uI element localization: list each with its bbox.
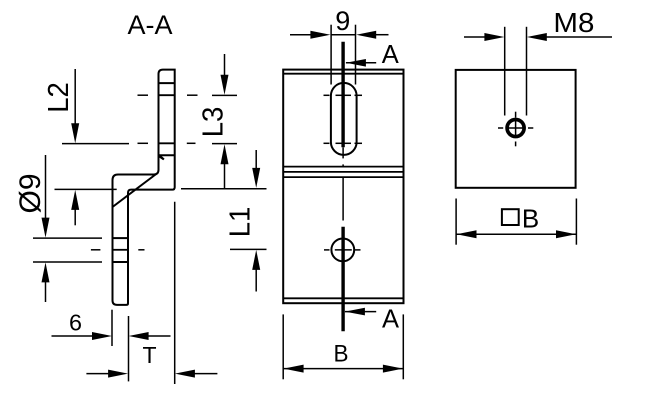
hole centerline crossing (side view leg) <box>113 249 129 251</box>
slot top centerline dashes <box>138 94 149 96</box>
dimension L1 bottom arrowhead <box>252 250 260 270</box>
dimension B extension line right <box>402 314 404 379</box>
dimension T line right <box>194 373 217 375</box>
dimension 9 right arrowhead <box>356 31 376 39</box>
L3 bottom tick line <box>212 143 237 145</box>
hole bottom edge line (side view leg) <box>113 261 129 263</box>
front view bend line 2 <box>283 171 403 173</box>
hole centerline dashes (side view) <box>91 249 101 251</box>
svg-text:A: A <box>382 41 399 69</box>
dimension D9 line upper <box>45 155 47 219</box>
section line A-A upper thick segment <box>341 42 344 148</box>
hole circle (front view) <box>331 239 354 262</box>
front view bend line 1 <box>283 166 403 168</box>
reference line slot bottom center extended left <box>62 143 129 145</box>
dimension 6 left arrowhead <box>92 332 112 340</box>
step bottom extension line right <box>181 188 267 190</box>
dimension T left arrowhead <box>108 370 128 378</box>
dimension D9 line lower <box>45 281 47 302</box>
svg-text:6: 6 <box>69 309 82 335</box>
dimension L2 arrowhead <box>71 123 79 143</box>
dimension L3 bottom arrowhead <box>221 144 229 164</box>
slot top edge line (side view) <box>159 82 175 84</box>
hole bottom extension line <box>33 261 102 263</box>
dimension square-B line <box>457 233 577 235</box>
dimension line below reference with up arrow <box>74 209 76 225</box>
svg-text:A: A <box>382 306 399 334</box>
dimension M8 extension line left <box>504 27 506 116</box>
dimension M8 leader line right <box>546 36 612 38</box>
dimension D9 lower arrowhead <box>42 262 50 282</box>
chamfer tick at slot bottom <box>158 154 164 160</box>
hole top extension line <box>33 237 102 239</box>
front view plate outline <box>283 70 403 304</box>
dimension L3 top arrowhead <box>221 75 229 95</box>
slot bottom centerline dashes <box>138 142 149 144</box>
dimension 6 line left <box>52 335 94 337</box>
dimension L3 line <box>224 54 226 76</box>
dimension D9 upper arrowhead <box>42 218 50 238</box>
dimension 9 left arrowhead <box>310 31 330 39</box>
top view square plate outline <box>456 70 576 188</box>
dimension M8 line left <box>464 36 485 38</box>
dimension 6 right arrowhead <box>129 332 149 340</box>
square symbol <box>502 209 519 225</box>
dimension T right arrowhead <box>175 370 195 378</box>
hole centerline dashes (front view) <box>324 249 330 251</box>
slot bottom arc centerline crossing (side view) <box>159 142 175 144</box>
section hatch diagonal <box>113 174 157 207</box>
dimension B extension line left <box>282 314 284 379</box>
extension line leg left edge <box>111 310 113 346</box>
centerline thin segments <box>342 147 344 158</box>
dimension 9 line right <box>376 34 389 36</box>
dimension 9 extension line right <box>355 25 357 85</box>
dimension 9 middle segment <box>331 34 356 36</box>
front view bottom inner edge line <box>283 297 403 299</box>
cutting plane arrow bottom <box>345 311 376 313</box>
dimension M8 right arrowhead <box>527 33 547 41</box>
dimension L2 line <box>74 69 76 128</box>
L3 top tick line <box>212 94 237 96</box>
threaded hole M8 ring <box>507 120 524 137</box>
section line A-A lower thick segment <box>341 227 344 331</box>
dimension 9 line left <box>290 34 311 36</box>
svg-text:B: B <box>334 340 349 367</box>
dimension 9 extension line left <box>330 25 332 85</box>
dimension 6 line right <box>149 335 171 337</box>
hole crosshair vertical dashes <box>515 112 517 118</box>
dimension square-B extension line right <box>575 199 577 245</box>
cutting plane arrow top <box>346 62 376 64</box>
lower leg top reference line extended left <box>55 188 117 190</box>
front view top inner edge line <box>283 73 403 75</box>
dimension square-B left arrowhead <box>457 230 477 238</box>
dimension T line left <box>86 373 109 375</box>
svg-text:M8: M8 <box>553 7 594 38</box>
dimension L1 line upper <box>255 150 257 169</box>
extension line bar right edge down <box>174 202 176 384</box>
svg-text:9: 9 <box>335 6 350 36</box>
slot outline (front view) <box>331 83 357 155</box>
svg-text:B: B <box>522 203 539 233</box>
slot bottom arc centerline dashes (front view) <box>324 142 330 144</box>
hole crosshair horizontal dashes <box>498 127 503 129</box>
dimension B right arrowhead <box>383 365 403 373</box>
svg-text:L1: L1 <box>223 207 256 238</box>
hole top edge line (side view leg) <box>113 237 129 239</box>
dimension square-B right arrowhead <box>556 230 576 238</box>
dimension L3 line lower <box>224 163 226 189</box>
dimension B left arrowhead <box>284 365 304 373</box>
svg-text:L3: L3 <box>196 107 229 138</box>
dimension square-B extension line left <box>455 199 457 245</box>
dimension L1 line lower <box>255 269 257 292</box>
dimension M8 extension line right <box>526 27 528 116</box>
slot top arc centerline dashes (front view) <box>324 94 330 96</box>
svg-text:L2: L2 <box>41 82 74 113</box>
slot bottom edge line (side view) <box>159 154 175 156</box>
svg-text:Ø9: Ø9 <box>14 173 47 213</box>
svg-text:A-A: A-A <box>127 10 172 40</box>
dimension L1 top arrowhead <box>252 168 260 188</box>
dimension M8 left arrowhead <box>484 33 504 41</box>
hole centerline extension right <box>230 248 267 250</box>
dimension B line <box>284 368 403 370</box>
extension line leg right edge <box>128 316 130 381</box>
slot top arc centerline crossing (side view) <box>159 94 175 96</box>
side view outline (Z bracket section) <box>113 70 175 305</box>
front view bend line 3 <box>283 176 403 178</box>
svg-text:T: T <box>142 342 156 368</box>
up arrowhead to reference line <box>71 190 79 210</box>
